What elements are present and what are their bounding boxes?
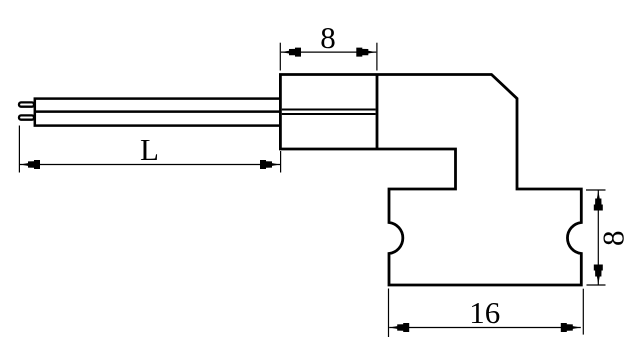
- svg-text:8: 8: [320, 20, 336, 55]
- svg-text:8: 8: [596, 231, 631, 247]
- svg-text:16: 16: [469, 295, 500, 330]
- svg-text:L: L: [140, 132, 159, 167]
